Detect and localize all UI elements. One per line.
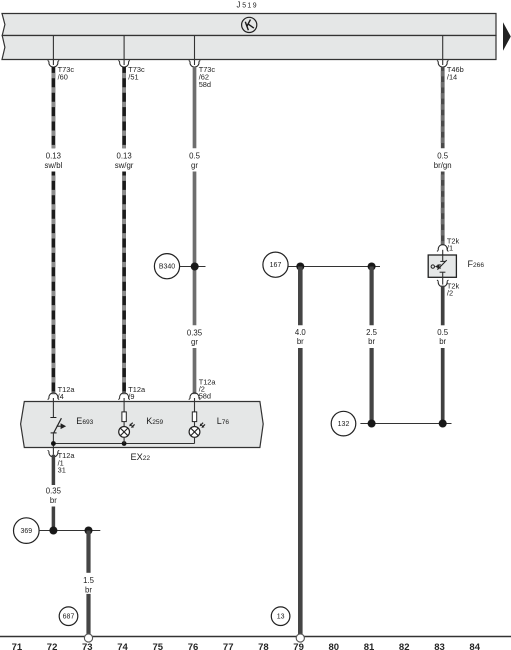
ground terminal 73 — [84, 634, 92, 642]
junction on 4.0 br wire — [296, 263, 304, 271]
bus bar J519 lower band — [2, 36, 496, 60]
label 0.5 gr — [189, 152, 201, 170]
svg-text:gr: gr — [191, 161, 198, 170]
label 0.5 br — [437, 328, 449, 346]
symbol K in circle on bus — [242, 17, 257, 32]
bus tap line to T73c/62 — [194, 36, 196, 60]
svg-text:sw/gr: sw/gr — [115, 161, 134, 170]
wire 4.0 br upper segment — [298, 267, 303, 326]
wire 1.5 br lower segment — [86, 594, 90, 634]
svg-text:br: br — [439, 337, 446, 346]
lamp L76 — [189, 402, 205, 444]
svg-text:31: 31 — [58, 466, 66, 475]
node 167 circle — [263, 252, 288, 277]
label 4.0 br — [295, 328, 307, 346]
svg-text:519: 519 — [242, 3, 257, 10]
arrow continuation right — [503, 22, 511, 51]
junction 1.5 br start — [85, 527, 93, 535]
svg-text:0.35: 0.35 — [46, 487, 62, 496]
svg-text:79: 79 — [293, 642, 304, 650]
svg-text:/51: /51 — [128, 73, 138, 82]
wire 0.5 gr middle segment — [193, 172, 197, 326]
svg-text:71: 71 — [12, 642, 23, 650]
svg-text:132: 132 — [338, 421, 350, 428]
label EX22 — [131, 452, 151, 462]
label 1.5 br — [83, 576, 95, 594]
connector T2k/1 — [437, 236, 460, 255]
svg-text:73: 73 — [82, 642, 93, 650]
label L76 — [217, 416, 230, 426]
wire 0.5 br/gn lower segment — [441, 172, 445, 246]
node 687 circle — [59, 607, 78, 626]
switch E693 — [50, 402, 66, 448]
bus tap line to T73c/51 — [123, 36, 125, 60]
svg-text:/4: /4 — [58, 392, 64, 401]
svg-text:13: 13 — [277, 614, 285, 621]
svg-text:58d: 58d — [199, 391, 211, 400]
svg-text:gr: gr — [191, 338, 198, 347]
svg-text:br: br — [50, 496, 57, 505]
wire 2.5 br upper segment — [370, 267, 374, 326]
connector T12a/9 — [118, 385, 146, 402]
junction 0.35 br end — [49, 527, 57, 535]
svg-text:687: 687 — [63, 614, 75, 621]
node B340 circle — [154, 254, 179, 279]
label 0.13 sw/bl — [45, 152, 63, 170]
wire 1.5 br upper segment — [86, 531, 90, 573]
wire 0.13 sw/gr upper segment — [122, 67, 126, 148]
svg-text:0.5: 0.5 — [437, 328, 449, 337]
label 0.13 sw/gr — [115, 152, 134, 170]
wire 0.35 br upper segment — [52, 455, 56, 485]
svg-text:76: 76 — [188, 642, 199, 650]
label J519 — [237, 1, 257, 10]
lamp K259 — [119, 402, 135, 444]
connector T12a/1 31 — [48, 448, 76, 475]
connector T46b/14 — [437, 60, 464, 82]
ground rail baseline — [0, 636, 511, 638]
internal bus wire in EX22 — [53, 443, 194, 445]
svg-text:2.5: 2.5 — [366, 328, 378, 337]
svg-text:369: 369 — [20, 528, 32, 535]
junction on 2.5 br wire — [368, 263, 376, 271]
bus tap line to T46b/14 — [442, 36, 444, 60]
svg-text:0.13: 0.13 — [117, 152, 132, 161]
node 132 circle — [331, 411, 356, 436]
connector T73c/62 58d — [189, 60, 216, 89]
wire 0.5 br/gn upper segment — [441, 67, 445, 148]
connector T73c/51 — [118, 60, 145, 82]
bus tap line to T73c/60 — [52, 36, 54, 60]
wire link 369 — [39, 530, 100, 532]
wire link 132 — [360, 423, 451, 425]
svg-text:br: br — [368, 337, 375, 346]
connector T73c/60 — [48, 60, 75, 82]
node 13 circle — [271, 607, 290, 626]
svg-text:81: 81 — [364, 642, 375, 650]
fuse F266 box — [428, 255, 456, 277]
junction 0.5 br end — [439, 420, 447, 428]
svg-text:83: 83 — [434, 642, 445, 650]
svg-text:0.5: 0.5 — [437, 152, 449, 161]
grid numbers 71-84 — [12, 642, 481, 650]
label F266 — [468, 259, 485, 269]
bus bar J519 upper band — [2, 14, 496, 36]
svg-text:br: br — [297, 337, 304, 346]
svg-text:84: 84 — [469, 642, 480, 650]
wire 0.13 sw/bl upper segment — [52, 67, 56, 148]
wire B340 stub — [180, 266, 206, 268]
svg-text:EX22: EX22 — [131, 452, 151, 462]
wire 0.5 gr upper segment — [193, 67, 197, 148]
connector T2k/2 — [437, 277, 460, 297]
wire 0.35 gr lower segment — [193, 348, 197, 394]
svg-text:sw/bl: sw/bl — [45, 161, 63, 170]
junction B340 on gr wire — [191, 263, 199, 271]
svg-text:78: 78 — [258, 642, 269, 650]
svg-text:/9: /9 — [128, 392, 134, 401]
svg-text:br/gn: br/gn — [434, 161, 452, 170]
svg-text:J: J — [237, 1, 241, 10]
svg-text:58d: 58d — [199, 80, 211, 89]
label K259 — [146, 416, 163, 426]
wire 0.5 br lower segment — [441, 348, 445, 424]
svg-text:77: 77 — [223, 642, 234, 650]
svg-text:1.5: 1.5 — [83, 576, 95, 585]
svg-text:0.35: 0.35 — [187, 328, 203, 337]
svg-text:br: br — [85, 586, 92, 595]
label 0.5 br/gn — [434, 152, 452, 170]
wire 0.5 br upper segment — [441, 286, 445, 326]
label 0.35 br — [46, 487, 62, 505]
svg-text:80: 80 — [329, 642, 340, 650]
node 369 circle — [13, 518, 39, 544]
wire 4.0 br lower segment — [298, 348, 303, 634]
fuse F266 internal symbol — [431, 255, 447, 277]
svg-text:/60: /60 — [58, 73, 68, 82]
svg-text:F266: F266 — [468, 259, 485, 269]
wire 0.13 sw/gr lower segment — [122, 172, 126, 395]
wire 0.35 br lower segment — [52, 507, 56, 531]
svg-text:75: 75 — [153, 642, 164, 650]
svg-text:B340: B340 — [159, 264, 175, 271]
svg-text:/1: /1 — [447, 244, 453, 253]
junction 2.5 br end — [368, 420, 376, 428]
label E693 — [76, 416, 93, 426]
svg-text:0.13: 0.13 — [46, 152, 61, 161]
label 2.5 br — [366, 328, 378, 346]
wire 0.13 sw/bl lower segment — [52, 172, 56, 395]
component band EX22 — [21, 402, 264, 448]
svg-text:/14: /14 — [447, 73, 457, 82]
svg-text:/2: /2 — [447, 289, 453, 298]
connector T12a/4 — [48, 385, 76, 402]
label 0.35 gr — [187, 328, 203, 346]
wire 2.5 br lower segment — [370, 348, 374, 424]
svg-text:167: 167 — [270, 262, 282, 269]
wire link 167 — [288, 266, 380, 268]
junction K259 bus — [122, 441, 127, 446]
svg-text:72: 72 — [47, 642, 58, 650]
svg-text:4.0: 4.0 — [295, 328, 307, 337]
junction E693 bus — [51, 441, 56, 446]
svg-text:82: 82 — [399, 642, 410, 650]
svg-text:0.5: 0.5 — [189, 152, 201, 161]
connector T12a/2 58d — [189, 377, 217, 401]
svg-text:74: 74 — [117, 642, 128, 650]
ground terminal 79 — [296, 634, 304, 642]
